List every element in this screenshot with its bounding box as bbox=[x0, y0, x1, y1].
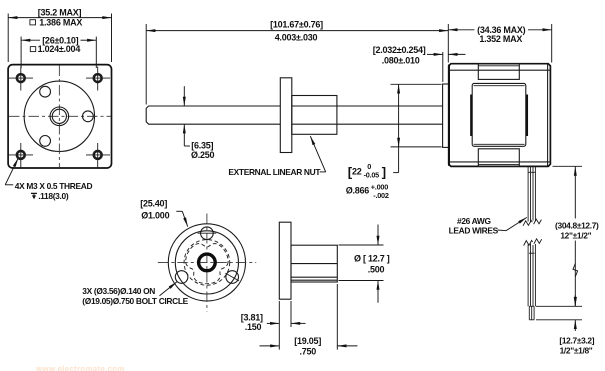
depth symbol bbox=[31, 193, 37, 196]
svg-text:.500: .500 bbox=[368, 264, 385, 274]
motor pilot boss bbox=[443, 84, 449, 147]
svg-text:EXTERNAL LINEAR NUT: EXTERNAL LINEAR NUT bbox=[228, 167, 321, 177]
svg-text:4X M3 X 0.5 THREAD: 4X M3 X 0.5 THREAD bbox=[15, 181, 93, 191]
nut bore lines bbox=[291, 263, 337, 265]
nut flange inner circle bbox=[175, 231, 238, 294]
svg-text:[101.67±0.76]: [101.67±0.76] bbox=[270, 19, 323, 29]
svg-text:.750: .750 bbox=[300, 346, 317, 356]
svg-text:[25.40]: [25.40] bbox=[140, 199, 167, 209]
svg-text:#26 AWG: #26 AWG bbox=[457, 216, 491, 226]
svg-text:12"±1/2": 12"±1/2" bbox=[560, 231, 591, 241]
dim line 101.67 bbox=[146, 30, 448, 32]
hidden scallop trefoil bbox=[186, 244, 228, 284]
ext line motor right face bbox=[551, 24, 553, 63]
stripped wire tips bbox=[529, 306, 534, 320]
svg-text:[6.35]: [6.35] bbox=[191, 140, 213, 150]
NUT-FRONT-END bbox=[241, 222, 390, 356]
flange horizontal centerline bbox=[9, 115, 111, 117]
motor left face heavy bbox=[448, 65, 450, 166]
svg-text:(Ø19.05)Ø.750 BOLT CIRCLE: (Ø19.05)Ø.750 BOLT CIRCLE bbox=[82, 296, 188, 306]
hidden circle bbox=[184, 240, 230, 286]
stator stack bbox=[472, 83, 526, 146]
dim arrows 2.032 bbox=[427, 53, 434, 55]
wire bundle upper bbox=[528, 166, 535, 222]
nut outer flange circle bbox=[168, 224, 245, 301]
FLANGE-FRONT-VIEW-END bbox=[146, 64, 550, 178]
svg-text:0: 0 bbox=[367, 162, 371, 171]
TOP-DIMS-END bbox=[82, 199, 256, 312]
svg-text:www.electromate.com: www.electromate.com bbox=[35, 365, 125, 371]
bolt hole upper-left bbox=[40, 86, 51, 97]
svg-text:-0.05: -0.05 bbox=[364, 171, 380, 180]
dim 304.8 wire length bbox=[574, 167, 576, 219]
square symbol bbox=[30, 20, 36, 25]
ext line screw left end bbox=[145, 24, 147, 105]
motor end cap line bottom bbox=[449, 161, 551, 163]
dim line 35.2 bbox=[8, 17, 111, 19]
svg-text:[35.2 MAX]: [35.2 MAX] bbox=[38, 7, 82, 17]
threaded center ring bbox=[199, 254, 216, 271]
motor body outline bbox=[449, 64, 551, 167]
svg-text:1.352 MAX: 1.352 MAX bbox=[479, 34, 522, 44]
mount hole top bbox=[201, 227, 214, 240]
motor bottom tab bbox=[478, 149, 519, 167]
flange vertical centerline bbox=[58, 66, 60, 168]
svg-text:.118(3.0): .118(3.0) bbox=[38, 191, 69, 201]
screw thru nut body bbox=[292, 105, 337, 107]
svg-text:Ø [ 12.7 ]: Ø [ 12.7 ] bbox=[354, 254, 390, 264]
svg-text:1.024±.004: 1.024±.004 bbox=[38, 44, 81, 54]
nut flange side bbox=[279, 222, 291, 299]
dim line 26 bbox=[21, 39, 40, 41]
arrows 3.81 bbox=[267, 322, 280, 324]
bolt hole right bbox=[83, 111, 94, 122]
motor end cap inner right bbox=[547, 64, 549, 167]
dim 12.7 strip bbox=[574, 295, 576, 306]
ext lines nut dia bbox=[339, 244, 384, 246]
arrows 19.05 bbox=[260, 345, 280, 347]
svg-text:.080±.010: .080±.010 bbox=[382, 55, 420, 65]
corner thread hole TR bbox=[86, 67, 110, 91]
ext lines wire tip bbox=[536, 305, 582, 307]
break squiggle lower left bbox=[524, 240, 533, 245]
svg-text:[2.032±0.254]: [2.032±0.254] bbox=[373, 45, 426, 55]
nut vertical centerline bbox=[206, 214, 208, 312]
svg-text:22: 22 bbox=[352, 166, 362, 176]
dim line 34.36 bbox=[448, 29, 474, 31]
svg-text:]: ] bbox=[382, 164, 386, 179]
nut horizontal centerline bbox=[158, 261, 256, 263]
ext line motor bottom bbox=[553, 165, 583, 167]
svg-text:Ø.866: Ø.866 bbox=[346, 186, 370, 196]
linear nut body (side) bbox=[292, 96, 337, 135]
dim 2.032 boss ext line bbox=[442, 52, 444, 82]
motor top tab bbox=[478, 64, 519, 80]
shaft hub boss double circle bbox=[50, 107, 69, 126]
svg-text:(304.8±12.7): (304.8±12.7) bbox=[555, 220, 599, 230]
motor end cap line top bbox=[449, 69, 551, 71]
NUT-SIDE-END bbox=[449, 166, 599, 355]
ext line motor left face bbox=[447, 24, 449, 63]
flange pilot circle bbox=[24, 81, 94, 151]
break squiggle upper right bbox=[534, 219, 542, 224]
corner thread hole TL bbox=[9, 67, 33, 91]
dim line 22 boss dia bbox=[398, 84, 400, 172]
motor mounting flange square outline bbox=[8, 65, 111, 168]
svg-text:3X (Ø3.56)Ø.140 ON: 3X (Ø3.56)Ø.140 ON bbox=[82, 286, 155, 296]
dim 26 extension lines bbox=[20, 37, 22, 68]
svg-text:LEAD WIRES: LEAD WIRES bbox=[449, 226, 499, 236]
svg-text:1/2"±1/8": 1/2"±1/8" bbox=[560, 345, 593, 355]
linear nut flange (side) bbox=[280, 78, 292, 153]
ext lines boss dia bbox=[391, 83, 442, 85]
corner thread hole BL bbox=[9, 143, 33, 168]
dim arrows 6.35 screw dia bbox=[183, 86, 185, 106]
svg-text:[12.7±3.2]: [12.7±3.2] bbox=[559, 336, 594, 346]
wire bundle lower bbox=[528, 243, 535, 306]
screw between nut and motor bbox=[337, 105, 443, 107]
svg-text:-.002: -.002 bbox=[373, 191, 389, 200]
svg-text:[3.81]: [3.81] bbox=[241, 312, 263, 322]
break squiggle upper left bbox=[523, 220, 532, 225]
leader 4X M3 bbox=[5, 184, 13, 186]
leadscrew shaft bbox=[146, 106, 280, 124]
ext lines flange thickness bbox=[278, 301, 280, 350]
svg-text:[19.05]: [19.05] bbox=[294, 336, 321, 346]
bolt hole lower-left bbox=[40, 136, 51, 147]
lamination edges bbox=[470, 95, 472, 137]
mount hole lower-right bbox=[226, 271, 239, 284]
nut body side bbox=[291, 245, 337, 282]
svg-text:Ø1.000: Ø1.000 bbox=[141, 210, 169, 220]
dim 35.2 MAX extension lines bbox=[7, 14, 9, 63]
svg-text:Ø.250: Ø.250 bbox=[191, 150, 215, 160]
mount hole lower-left bbox=[175, 271, 188, 284]
svg-text:.150: .150 bbox=[245, 322, 262, 332]
jog symbol bbox=[573, 264, 578, 277]
svg-text:4.003±.030: 4.003±.030 bbox=[275, 32, 318, 42]
svg-text:1.386 MAX: 1.386 MAX bbox=[39, 17, 82, 27]
ext line body end bbox=[336, 284, 338, 350]
MOTOR-ASSY-END bbox=[146, 19, 552, 200]
break squiggle lower right bbox=[534, 239, 542, 244]
arrows nut dia bbox=[377, 225, 379, 246]
corner thread hole BR bbox=[86, 143, 110, 168]
